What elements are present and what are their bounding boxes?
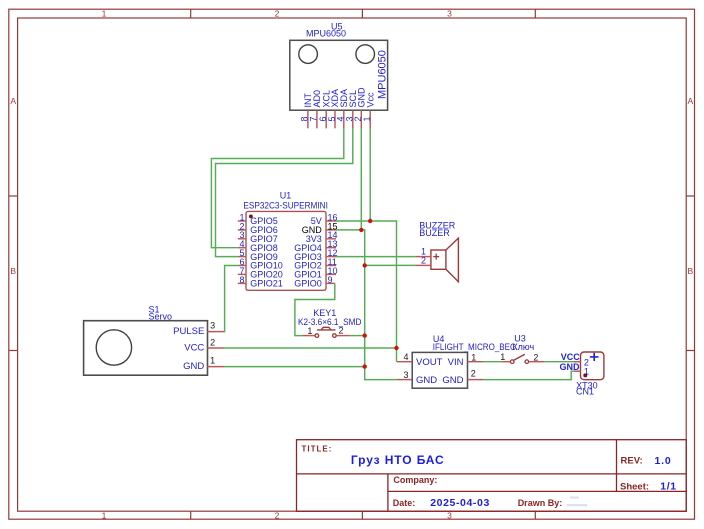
svg-text:REV:: REV: (621, 456, 643, 467)
U3 pin stubs (501, 361, 544, 363)
wire U1 GPIO10 to servo PULSE (224, 266, 238, 332)
junction GND at servo GND branch (363, 364, 367, 368)
svg-text:Date:: Date: (393, 498, 416, 508)
wire U1 GPIO3 to buzzer pin1 (336, 256, 416, 258)
U1 left pin names GPIO5..GPIO21 (250, 216, 283, 288)
servo S1 (84, 304, 208, 375)
CN1 pin stubs 2,1 (574, 362, 581, 372)
wire switch U3 pin2 to XT30 pin2 (544, 361, 573, 363)
svg-text:VCC: VCC (561, 352, 581, 362)
svg-text:IFLIGHT_MICRO_BEC: IFLIGHT_MICRO_BEC (433, 342, 516, 352)
svg-text:B: B (687, 266, 693, 276)
svg-text:MPU6050: MPU6050 (306, 29, 346, 39)
regulator U4 IFLIGHT_MICRO_BEC (412, 334, 516, 388)
U1 left pin stubs 1..8 (238, 221, 246, 283)
junction VCC/5V at U5 Vcc drop (368, 219, 372, 223)
svg-text:A: A (10, 96, 16, 106)
svg-text:CN1: CN1 (576, 387, 594, 397)
wire servo GND to GND net (224, 366, 365, 368)
svg-text:Drawn By:: Drawn By: (518, 498, 563, 508)
svg-text:MPU6050: MPU6050 (376, 50, 388, 99)
svg-text:VIN: VIN (448, 357, 464, 368)
U4 pin stubs 4,3,1,2 (397, 362, 483, 380)
svg-text:3: 3 (447, 9, 452, 19)
svg-text:GND: GND (183, 361, 204, 372)
U3 pin numbers (500, 352, 538, 362)
push button KEY1 K2-3.6x6.1_SMD (298, 308, 362, 337)
wire 5V net: U1 pin16 to U4 VOUT (336, 221, 397, 362)
wire KEY1 pin2 to GND net (350, 335, 365, 337)
svg-text:BUZER: BUZER (419, 228, 450, 238)
svg-text:1: 1 (102, 9, 107, 19)
wire GND net: U1 pin15 down to U4 GND (336, 230, 397, 380)
svg-text:Груз НТО БАС: Груз НТО БАС (351, 453, 445, 467)
buzzer BUZZER/BUZER (419, 220, 458, 281)
svg-text:2: 2 (421, 255, 426, 265)
MCU U1 ESP32C3-SUPERMINI (243, 191, 328, 291)
U1 right pin stubs 16..9 (326, 221, 336, 283)
svg-text:3: 3 (447, 511, 452, 521)
S1 pin stubs 3,2,1 (208, 332, 225, 367)
wire SCL: U5 pin3 to U1 GPIO9 (216, 128, 353, 257)
switch U3 Ключ (510, 334, 534, 364)
wire GND branch to buzzer pin2 (365, 264, 416, 266)
svg-text:4: 4 (403, 352, 408, 362)
svg-text:8: 8 (239, 275, 244, 285)
junction 5V at servo VCC branch (394, 346, 398, 350)
junction GND at buzzer pin2 branch (363, 263, 367, 267)
svg-text:2: 2 (210, 338, 215, 348)
svg-text:TITLE:: TITLE: (302, 444, 333, 453)
svg-text:B: B (10, 266, 16, 276)
svg-text:1: 1 (210, 356, 215, 366)
buzzer pin stubs 1,2 (416, 257, 431, 266)
svg-text:1: 1 (362, 116, 372, 121)
svg-text:3: 3 (210, 321, 215, 331)
svg-text:2: 2 (338, 326, 343, 336)
svg-text:Ключ: Ключ (512, 342, 534, 352)
S1 pin numbers (210, 321, 215, 366)
svg-text:VOUT: VOUT (416, 357, 443, 368)
svg-text:1: 1 (471, 352, 476, 362)
U1 left pin numbers 1..8 (239, 212, 244, 284)
svg-text:ESP32C3-SUPERMINI: ESP32C3-SUPERMINI (243, 201, 328, 211)
svg-text:1: 1 (500, 352, 505, 362)
wire SDA: U5 pin4 to U1 GPIO8 (211, 128, 343, 248)
svg-text:1: 1 (307, 326, 312, 336)
KEY1 pin numbers (307, 326, 343, 336)
svg-text:GND: GND (416, 375, 437, 386)
svg-text:Servo: Servo (149, 311, 173, 321)
svg-text:1/1: 1/1 (660, 481, 676, 493)
svg-text:9: 9 (328, 275, 333, 285)
svg-text:1.0: 1.0 (655, 455, 672, 467)
KEY1 pin stubs (302, 335, 350, 337)
svg-text:Company:: Company: (393, 475, 437, 485)
U4 pin numbers (403, 352, 476, 380)
svg-text:2: 2 (275, 9, 280, 19)
wire U1 GPIO0 to KEY1 pin1 (295, 283, 335, 335)
svg-text:GPIO0: GPIO0 (294, 279, 322, 289)
U5 pin names INT AD0 XCL XDA SDA SCL GND Vcc (303, 87, 375, 108)
svg-text:A: A (687, 96, 693, 106)
svg-text:2025-04-03: 2025-04-03 (430, 497, 490, 509)
connector CN1 XT30 (576, 352, 604, 397)
U1 right pin names 5V GND 3V3 GPIO4..GPIO0 (294, 216, 322, 288)
IMU sensor U5 MPU6050 (290, 22, 389, 111)
svg-text:PULSE: PULSE (173, 326, 204, 337)
svg-text:GND: GND (560, 362, 581, 372)
svg-text:2: 2 (275, 511, 280, 521)
wire U4 GND right to XT30 pin1 (483, 371, 574, 379)
svg-text:2: 2 (471, 368, 476, 378)
junction GND at KEY1 pin2 branch (363, 333, 367, 337)
U5 pin numbers 8..1 (300, 116, 372, 121)
svg-text:2: 2 (533, 352, 538, 362)
wire VCC from U5 pin1 (369, 128, 371, 222)
U1 right pin numbers 16..9 (328, 212, 338, 284)
svg-text:1: 1 (102, 511, 107, 521)
svg-text:Vcc: Vcc (365, 92, 375, 108)
junction GND at U5 GND drop (359, 228, 363, 232)
svg-text:3: 3 (403, 370, 408, 380)
wire U4 VIN to switch U3 pin1 (483, 361, 501, 363)
buzzer pin numbers (421, 246, 426, 265)
svg-text:VCC: VCC (184, 343, 204, 354)
wire servo VCC to 5V net (224, 347, 397, 349)
svg-text:GPIO21: GPIO21 (250, 279, 283, 289)
svg-text:GND: GND (442, 375, 463, 386)
svg-text:Sheet:: Sheet: (620, 481, 649, 492)
svg-text:U1: U1 (280, 191, 292, 201)
U5 pin stubs 8..1 (308, 110, 370, 128)
wire GND from U5 pin2 (360, 128, 362, 230)
